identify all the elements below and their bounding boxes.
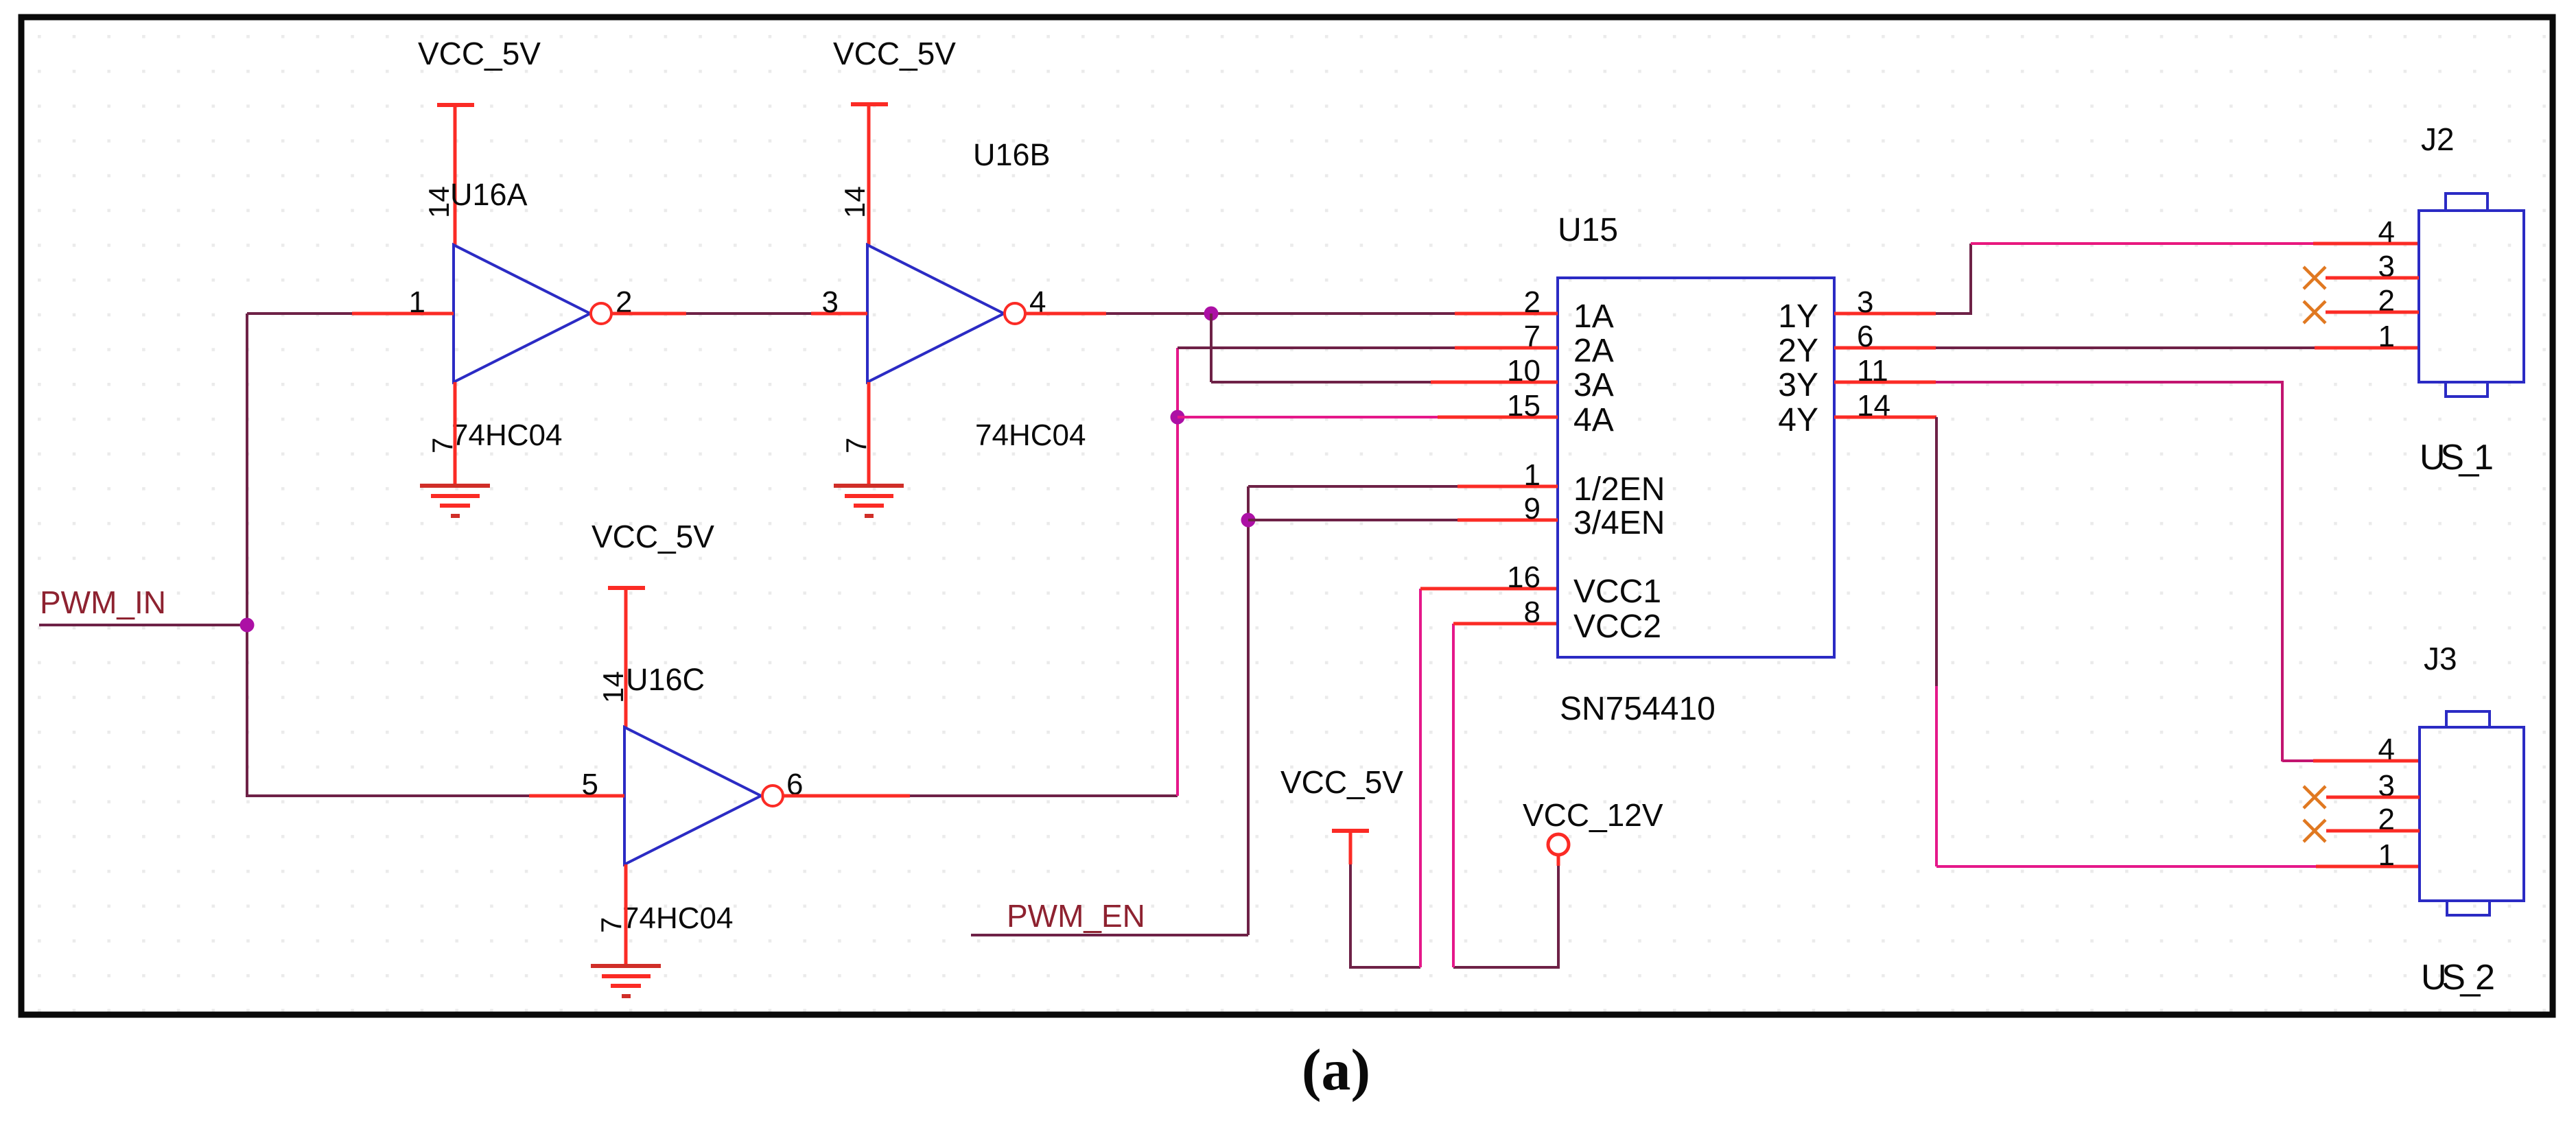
svg-text:VCC_5V: VCC_5V: [833, 36, 956, 71]
part label 74HC04 (U16A): [452, 418, 562, 452]
wire PWM_IN vertical to U16A input: [246, 314, 248, 625]
pin 1 stub (1/2EN): [1457, 485, 1558, 488]
svg-text:U16B: U16B: [973, 137, 1051, 172]
pin number 1 (J3): [2378, 838, 2395, 872]
pin number 2 (U16A): [616, 285, 632, 319]
wire 1Y to J2 pin 4: [1936, 244, 1971, 314]
pin number 2: [1524, 285, 1541, 319]
wire U16A pin 7 to ground: [454, 382, 457, 486]
wire branch down to 3A: [1210, 314, 1213, 382]
svg-text:1A: 1A: [1573, 298, 1614, 335]
svg-text:14: 14: [839, 186, 871, 218]
designator U16C: [626, 662, 705, 697]
wire VCC1 riser: [1419, 589, 1422, 967]
svg-text:U16A: U16A: [450, 177, 528, 212]
wire U16C pin 6 output stub: [782, 794, 910, 798]
pin number 8: [1524, 595, 1541, 629]
svg-text:VCC1: VCC1: [1573, 574, 1661, 610]
wire U16C output to 4A riser: [910, 794, 1178, 797]
wire U16A output to U16B pin 3: [686, 312, 811, 315]
wire 4Y to J3 pin 1: [1936, 865, 2316, 868]
svg-text:1: 1: [2378, 838, 2395, 872]
pin number 7: [1524, 320, 1541, 353]
connector J2 top tab: [2446, 193, 2487, 211]
svg-text:J2: J2: [2421, 121, 2455, 157]
pin 11 stub (3Y): [1834, 381, 1936, 384]
pin number 1 (J2): [2378, 320, 2395, 353]
svg-text:PWM_EN: PWM_EN: [1007, 898, 1145, 934]
svg-text:1/2EN: 1/2EN: [1573, 471, 1665, 508]
pin 3 stub (U16B): [811, 312, 867, 316]
no-connect X on J2 pin 3: [2304, 267, 2326, 289]
designator U16A: [450, 177, 528, 212]
ground symbol (U16B): [834, 486, 904, 516]
pin label 2Y: [1778, 333, 1818, 369]
inverter bubble (U16B output): [1005, 303, 1025, 324]
junction node on 4A: [1171, 410, 1185, 425]
pin number 3 (J3): [2378, 769, 2395, 803]
svg-text:US_2: US_2: [2421, 958, 2495, 998]
wire 3A horizontal: [1211, 381, 1431, 383]
power VCC_5V bar symbol (middle): [1332, 829, 1369, 833]
svg-text:1: 1: [409, 285, 425, 319]
wire 1/2EN horizontal: [1248, 485, 1457, 488]
wire PWM_EN riser to 1/2EN: [1247, 486, 1250, 935]
pin number 1 (U16A): [409, 285, 425, 319]
caption (a): [1302, 1037, 1370, 1102]
pin number 7 (U16C): [595, 917, 627, 933]
pin number 7 (U16A): [426, 438, 458, 453]
svg-text:74HC04: 74HC04: [452, 418, 562, 452]
svg-text:14: 14: [597, 671, 629, 703]
pin label 1A: [1573, 298, 1614, 335]
pin number 9: [1524, 492, 1541, 526]
svg-text:2Y: 2Y: [1778, 333, 1818, 369]
power VCC_5V label (U16A): [418, 36, 541, 71]
wire VCC_5V stem (red part): [1349, 831, 1353, 864]
svg-text:8: 8: [1524, 595, 1541, 629]
connector J2 bottom tab: [2446, 382, 2487, 397]
wire U16C pin 7 to ground: [624, 864, 628, 966]
svg-text:VCC_12V: VCC_12V: [1523, 797, 1663, 833]
pin 10 stub (3A): [1431, 381, 1558, 384]
power VCC_12V label: [1523, 797, 1663, 833]
junction node on 1A net: [1204, 307, 1219, 321]
svg-text:3A: 3A: [1573, 367, 1614, 403]
svg-text:5: 5: [582, 768, 598, 801]
no-connect X on J3 pin 3: [2304, 786, 2326, 808]
pin number 4 (J3): [2378, 733, 2395, 766]
svg-text:3: 3: [822, 285, 839, 319]
svg-text:VCC_5V: VCC_5V: [418, 36, 541, 71]
wire VCC_12V bottom jog: [1453, 966, 1558, 969]
pin stub J2 pin 3 (NC): [2326, 276, 2419, 280]
wire VCC_5V stem down: [1349, 864, 1352, 969]
net label PWM_EN: [1007, 898, 1145, 934]
wire net 1A from U16B output to U15: [1106, 312, 1455, 315]
power VCC_5V label (U16C): [592, 519, 714, 554]
pin 5 stub (U16C): [529, 794, 624, 798]
power VCC_5V bar symbol (U16B): [851, 102, 888, 106]
wire VCC_5V bottom jog: [1350, 966, 1420, 969]
svg-text:U16C: U16C: [626, 662, 705, 697]
power VCC_5V label (U16B): [833, 36, 956, 71]
pin 6 stub (2Y): [1834, 346, 1936, 350]
pin label 3A: [1573, 367, 1614, 403]
power VCC_12V circle symbol: [1548, 834, 1569, 855]
pin number 5 (U16C): [582, 768, 598, 801]
wire VCC_5V stem to U16B pin 14: [867, 104, 871, 245]
ground symbol (U16A): [420, 486, 490, 516]
pin 7 stub (2A): [1455, 346, 1558, 350]
svg-text:74HC04: 74HC04: [975, 418, 1086, 452]
pin number 2 (J3): [2378, 803, 2395, 836]
svg-text:PWM_IN: PWM_IN: [40, 585, 166, 620]
svg-text:14: 14: [1857, 389, 1890, 423]
part label SN754410: [1560, 691, 1716, 727]
designator U16B: [973, 137, 1051, 172]
pin 3 stub (1Y): [1834, 312, 1936, 316]
pin stub J3 pin 3 (NC): [2326, 796, 2420, 799]
wire 3/4EN horizontal: [1248, 519, 1457, 521]
wire U16B pin 7 to ground: [867, 382, 871, 486]
svg-text:9: 9: [1524, 492, 1541, 526]
svg-text:11: 11: [1857, 354, 1888, 388]
power VCC_5V bar symbol (U16A): [437, 103, 474, 107]
wire 3Y to J3 pin 4: [1936, 382, 2282, 762]
pin number 14 (U16B): [839, 186, 871, 218]
wire 4Y drop: [1935, 417, 1938, 686]
pin number 16: [1507, 560, 1541, 594]
wire PWM_IN branch to U16C pin 5: [247, 625, 529, 796]
svg-text:2: 2: [1524, 285, 1541, 319]
svg-text:2A: 2A: [1573, 333, 1614, 369]
svg-text:(a): (a): [1302, 1037, 1370, 1102]
pin number 1: [1524, 458, 1541, 492]
pin number 11: [1857, 354, 1888, 388]
connector J2 body: [2419, 211, 2524, 382]
wire VCC_12V stem (red part): [1557, 855, 1560, 866]
connector J3 top tab: [2446, 711, 2490, 727]
pin label 1/2EN: [1573, 471, 1665, 508]
pin stub J2 pin 1: [2315, 346, 2419, 350]
pin stub J3 pin 4: [2282, 759, 2313, 762]
pin stub J3 pin 4 red: [2313, 759, 2420, 763]
svg-text:4A: 4A: [1573, 402, 1614, 438]
svg-text:10: 10: [1507, 354, 1541, 388]
pin label 3Y: [1778, 367, 1818, 403]
wire VCC1 pin 16 stub: [1420, 587, 1558, 591]
pin number 6 (U16C): [786, 768, 803, 801]
wire VCC_12V stem down: [1557, 866, 1560, 969]
wire 2A horizontal: [1178, 346, 1455, 349]
pin number 6: [1857, 320, 1873, 353]
svg-text:3: 3: [1857, 285, 1873, 319]
connector J3 bottom tab: [2447, 901, 2490, 915]
connector J3 body: [2420, 727, 2524, 901]
pin label VCC2: [1573, 609, 1661, 645]
svg-text:15: 15: [1507, 389, 1541, 423]
inverter U16B triangle: [867, 245, 1004, 382]
svg-text:J3: J3: [2424, 641, 2457, 676]
wire PWM_IN to U16A pin 1: [247, 312, 352, 315]
wire PWM_IN: [39, 624, 247, 626]
designator J3: [2424, 641, 2457, 676]
svg-text:VCC2: VCC2: [1573, 609, 1661, 645]
pin number 2 (J2): [2378, 284, 2395, 318]
IC U15 body: [1558, 278, 1834, 657]
pin stub J2 pin 4: [2313, 242, 2419, 246]
svg-text:US_1: US_1: [2420, 438, 2494, 477]
svg-text:U15: U15: [1558, 212, 1618, 248]
pin number 10: [1507, 354, 1541, 388]
inverter U16A triangle: [454, 245, 590, 382]
pin number 14 (U16C): [597, 671, 629, 703]
pin label 4Y: [1778, 402, 1818, 438]
pin 9 stub (3/4EN): [1457, 519, 1558, 522]
svg-text:74HC04: 74HC04: [622, 901, 733, 935]
wire PWM_EN horizontal: [971, 934, 1248, 936]
wire 2Y to J2 pin 1: [1936, 346, 2315, 349]
svg-text:4: 4: [2378, 215, 2395, 249]
pin stub J3 pin 2 (NC): [2326, 829, 2420, 833]
part label US_1: [2420, 438, 2494, 477]
svg-text:6: 6: [1857, 320, 1873, 353]
pin 14 stub (4Y): [1834, 416, 1936, 419]
pin 15 stub (4A): [1438, 416, 1558, 419]
wire VCC_5V stem to U16A pin 14: [454, 105, 457, 245]
svg-text:SN754410: SN754410: [1560, 691, 1716, 727]
part label 74HC04 (U16B): [975, 418, 1086, 452]
wire VCC2 riser: [1452, 624, 1455, 967]
svg-text:7: 7: [1524, 320, 1541, 353]
svg-text:VCC_5V: VCC_5V: [1280, 764, 1403, 800]
inverter bubble (U16C output): [762, 786, 783, 806]
power VCC_5V label (middle): [1280, 764, 1403, 800]
pin number 14 (U16A): [423, 186, 455, 218]
svg-text:1: 1: [2378, 320, 2395, 353]
pin number 7 (U16B): [840, 438, 872, 453]
ground symbol (U16C): [591, 966, 661, 996]
pin number 3: [1857, 285, 1873, 319]
inverter U16C triangle: [624, 727, 761, 864]
net label PWM_IN: [40, 585, 166, 620]
pin number 3 (J2): [2378, 250, 2395, 283]
pin number 4 (U16B): [1029, 285, 1046, 319]
no-connect X on J3 pin 2: [2304, 820, 2326, 842]
wire riser from U16C output up to 2A: [1176, 348, 1179, 796]
junction node on PWM_EN riser: [1241, 513, 1256, 528]
svg-text:VCC_5V: VCC_5V: [592, 519, 714, 554]
pin 2 stub (1A): [1455, 312, 1558, 316]
svg-text:16: 16: [1507, 560, 1541, 594]
pin label 2A: [1573, 333, 1614, 369]
pin label 1Y: [1778, 298, 1818, 335]
inverter bubble (U16A output): [591, 303, 611, 324]
wire 1Y horizontal to J2 pin 4 (pink): [1971, 242, 2313, 245]
pin stub J3 pin 1: [2316, 865, 2420, 869]
wire VCC_5V stem to U16C pin 14: [624, 588, 628, 727]
pin number 15: [1507, 389, 1541, 423]
pin 1 stub (U16A): [352, 312, 454, 316]
junction node PWM_IN: [240, 618, 255, 633]
wire 4A horizontal: [1178, 416, 1438, 418]
svg-text:1Y: 1Y: [1778, 298, 1818, 335]
pin label VCC1: [1573, 574, 1661, 610]
designator J2: [2421, 121, 2455, 157]
svg-text:4: 4: [2378, 733, 2395, 766]
svg-text:3Y: 3Y: [1778, 367, 1818, 403]
designator U15: [1558, 212, 1618, 248]
svg-text:3/4EN: 3/4EN: [1573, 505, 1665, 541]
part label US_2: [2421, 958, 2495, 998]
wire 4Y drop (pink part): [1935, 686, 1938, 866]
svg-text:1: 1: [1524, 458, 1541, 492]
pin label 4A: [1573, 402, 1614, 438]
pin label 3/4EN: [1573, 505, 1665, 541]
wire VCC2 pin 8 stub: [1453, 622, 1558, 626]
pin stub J2 pin 2 (NC): [2326, 311, 2419, 314]
pin number 3 (U16B): [822, 285, 839, 319]
wire U16A pin 2 output stub: [611, 312, 686, 316]
part label 74HC04 (U16C): [622, 901, 733, 935]
power VCC_5V bar symbol (U16C): [608, 586, 645, 590]
no-connect X on J2 pin 2: [2304, 301, 2326, 323]
svg-text:4Y: 4Y: [1778, 402, 1818, 438]
pin number 4 (J2): [2378, 215, 2395, 249]
wire U16B pin 4 output stub: [1024, 312, 1106, 316]
pin number 14: [1857, 389, 1890, 423]
